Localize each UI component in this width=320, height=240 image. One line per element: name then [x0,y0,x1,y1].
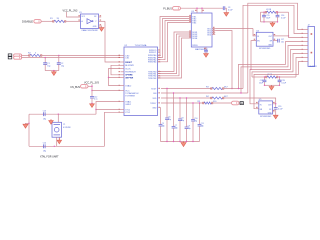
ground below C3 [224,13,229,17]
pin UART right TX group 4 [158,61,162,63]
wire: pi1 left leg down to ground rail [260,12,262,22]
node: cap field bus junction [192,141,193,142]
pin 6 U1 NC [99,16,102,18]
capacitor C1 15p (on bus) [44,58,46,63]
wire: caps common to ground [45,70,59,72]
wire: UART TXA0 to U3 pin [158,17,191,56]
wire: pi1 output leg down to J2 pin3 [289,12,304,37]
transceiver U3 MAX3160 IC [191,13,212,47]
svg-text:10uF: 10uF [266,18,271,20]
wire: R2 to UART pin (bus upper) [41,54,121,56]
svg-text:15p: 15p [47,65,50,67]
wire: R4 onward to LDO2 OUT junction [223,98,276,104]
row wire SIN [161,92,248,94]
wire: UART RXB1 to U3 pin [158,34,191,74]
svg-text:RXRDY1: RXRDY1 [149,52,156,54]
svg-text:R3: R3 [206,86,209,88]
capacitor C18 10uF (pi2 left) [264,77,266,80]
node: pi2 right tap [279,76,280,77]
svg-text:PWDN: PWDN [192,45,198,47]
wire: UART RXB2 to U3 pin [158,36,191,76]
capacitor C15 10uF (pi1 left) [263,12,265,15]
row wire VDD to LDO2 [161,97,212,99]
capacitor C6 decoupling (cap field 2) [166,89,168,119]
power arrow at crystal pin 1 [50,119,52,120]
pin U5 OUT junction [273,103,276,105]
node: cap field tap 2 [166,88,167,89]
wire: UART TXA1 to U3 pin [158,19,191,58]
pin UART right TX group 3 [158,59,162,61]
pin 1 U1 VCC [78,15,80,16]
node: cap field tap 3 [173,92,174,93]
node: cap field tap 5 [186,97,187,98]
svg-text:BLKPWR: BLKPWR [125,65,134,67]
wire: net from inverter U1 output down to UART RESET pin [105,21,121,62]
svg-text:Y1: Y1 [63,124,65,126]
wire: J2 pin6 fan to U5 IN [250,50,304,104]
pin U4 BP with capacitor C17 [273,40,278,42]
off-page connector icon right of TXD port [240,102,243,105]
wire: J1 pin1 to resistor R2 (bus upper) [22,54,30,56]
svg-text:U2: U2 [125,45,128,47]
wire: resistor R1 to inverter U1 input [65,20,81,22]
wire: VCC_PL_3V3 to U1 VCC pin [67,12,81,17]
node: cap field bus junction [186,141,187,142]
svg-text:0.1uF: 0.1uF [228,10,233,12]
pin J2-7 [304,53,309,55]
svg-text:18p: 18p [194,120,197,122]
ground below C4 [204,54,209,58]
pin UART left BLKPWR y65.3 [121,64,125,66]
wire: pi2 caps common [265,84,280,86]
svg-text:18p: 18p [168,119,171,121]
pin U4 EN wire [251,41,256,70]
svg-text:TIN4: TIN4 [192,22,196,24]
capacitor C13 18p (crystal top) [44,112,46,116]
wire: U3 right pin B2 down to SOUT row [215,31,232,89]
pin U5 IN wire from connector fan [256,103,259,105]
pin U3 left lower 1 [189,30,191,31]
svg-text:VCC_PL_3V3: VCC_PL_3V3 [63,9,79,12]
wire: J2 pin5 fan to SIN row [241,46,304,94]
capacitor C14 18p (crystal bottom) [44,144,46,148]
svg-text:MAX3160EAP: MAX3160EAP [195,48,208,51]
wire: gnd stub crystal [26,122,30,125]
svg-text:SOUT: SOUT [151,88,157,90]
node: crystal top junction [58,114,59,115]
pin UART right row 1 [158,88,160,89]
pin UART left VCC y90.5 [121,90,125,92]
crystal Y1 4.9152MHz [57,114,59,122]
pin UART left HIGHTACH y71.8 [121,71,125,73]
regulator U5 LDO (bottom right) [259,101,273,114]
svg-text:C13: C13 [43,111,46,113]
pin UART left RESET y62 [121,61,125,63]
wire: J2 pin8 fan to pi2 output [296,58,304,78]
pin UART left XTAL1 y101.5 [121,101,125,103]
wire: branch to UART X1 pin [96,109,121,111]
power arrow at crystal pin 2 [58,138,60,141]
wire: U4 IN from U3 supply net [253,29,256,36]
pin U3 right 1 [212,28,215,30]
pin U3 left lower 4 [189,36,191,37]
svg-text:TL16C554A: TL16C554A [135,44,147,47]
svg-text:18p: 18p [188,128,191,130]
UART U2 TL16C554A main IC [124,47,158,116]
wire: cap field common bus [161,141,200,143]
connector J1 (left, 2-pin) [8,54,12,56]
row wire GND stub to cap field [160,107,163,109]
op-amp U1 single-gate buffer 74AHC1G125 [81,14,99,29]
node: cap field tap 7 [199,102,200,103]
pin U3 right 4 [212,34,215,36]
crystal circuit: top wire [29,113,96,115]
wire: VCC to UART VCC pin [92,90,121,92]
pin UART right row 3 [158,97,160,98]
wire: J2 pin9 fan to U5 EN [254,62,304,109]
pin U3 right 3 [212,32,215,34]
pin U5 GND stub [273,111,275,113]
pin UART right RX group 3 [158,75,162,77]
svg-text:0: 0 [35,52,37,54]
node: crystal bottom junction [54,146,55,147]
svg-text:TXRDYB3: TXRDYB3 [148,78,156,80]
pin UART right row 4 [158,102,160,103]
svg-text:18p: 18p [181,120,184,122]
wire: PI_BUS to U3 top pins and C3 [181,7,224,9]
node: pi2 left tap [264,76,265,77]
pin J2-2 [304,33,309,35]
capacitor C5 decoupling (cap field 1) [160,108,162,125]
svg-text:XPWRE: XPWRE [125,75,133,77]
ground below U1 [99,28,104,32]
svg-text:TXRDY: TXRDY [150,103,157,105]
wire: UART TXA3 to U3 pin [158,23,191,62]
pi filter L1 (top right) [261,11,267,13]
svg-text:C14: C14 [43,143,46,145]
wire: C3 to ground stub [225,8,226,12]
svg-text:0.1uF: 0.1uF [282,83,287,85]
node: cap field tap 4 [179,97,180,98]
svg-text:SPX3819M5: SPX3819M5 [260,116,272,118]
wire: UART TXA2 to U3 pin [158,21,191,60]
svg-text:RESET: RESET [125,62,132,64]
pin J2-9 [304,61,309,63]
capacitor C3 0.1uF (top, U3 supply) [223,6,225,10]
pin UART left XCLK y68.5 [121,68,125,70]
node: junction cap C1 on bus lower [45,57,46,58]
ground below C12 [90,104,95,108]
svg-text:RON4: RON4 [192,38,197,40]
svg-text:10uF: 10uF [259,83,264,85]
node: pi1 right tap [277,12,278,13]
regulator U4 LDO SPX3819 [256,32,273,46]
svg-text:L1 FB: L1 FB [266,9,272,11]
capacitor C19 0.1uF (pi2 right) [279,77,281,80]
svg-text:74AHC1G125DBV: 74AHC1G125DBV [81,29,98,32]
ground below cap field bus [183,142,185,143]
svg-text:HIGHTACH: HIGHTACH [125,71,136,74]
wire: UART RXB3 to U3 pin [158,38,191,78]
pin UART left CS1 y57.6 [121,57,125,59]
node: cap field tap 6 [192,102,193,103]
wire: loop riser SIN to top and J2 pin1 [248,3,304,93]
svg-text:XTAL1: XTAL1 [125,100,132,103]
capacitor C12 0.1uF (UART VCC decoupling) [90,97,94,99]
svg-text:TOTHESR: TOTHESR [125,96,135,98]
wire: UART RXB0 to U3 pin [158,32,191,72]
wire: R3 to top loop riser [223,88,244,90]
pin UART left XPWRE y74.8 [121,74,125,76]
capacitor C7 decoupling (cap field 3) [173,93,175,127]
pin U3 top VCC [201,8,203,13]
node: junction cap C2 on bus upper [58,55,59,56]
svg-text:0.1uF: 0.1uF [281,18,286,20]
wire: UART pin Z-link IOW to INTA and XTAL2 [109,69,121,78]
ground at crystal left rail [23,124,28,128]
svg-text:PI_BUS: PI_BUS [163,8,172,11]
capacitor C2 15p (on bus) [58,55,60,62]
pin UART left INTPWR y77.5 [121,77,125,79]
wire: crystal top to UART XTAL1 [96,102,121,115]
pin UART right TX group 2 [158,57,162,59]
node: cap field bus junction [179,141,180,142]
svg-text:OUT: OUT [268,104,272,106]
capacitor C4 below U3 [204,50,208,52]
svg-text:XCLK: XCLK [125,68,131,70]
wire: J2 pin4 fan to SOUT row [239,42,304,89]
pin UART right row 5 [158,107,160,108]
wire: pi1 caps common [261,21,278,23]
pin J2-4 [304,41,309,43]
pin U3 top V+ [196,8,198,13]
svg-text:4K7: 4K7 [224,96,228,98]
svg-text:SPX3819M5: SPX3819M5 [259,48,271,50]
pin U3 left lower 3 [189,34,191,35]
svg-text:INTPWR: INTPWR [125,77,133,79]
ground below bus caps [53,71,55,72]
ground below U5 output cap [273,115,278,119]
pin U3 left upper 2 [189,17,191,18]
ground below pi1 [272,22,274,23]
capacitor C9 decoupling (cap field 5) [186,98,188,127]
wire: CN_BUS port to VCC net [88,85,92,87]
port pin 1 of J1 [14,54,22,57]
svg-text:4.9152M: 4.9152M [63,127,71,129]
pin UART left XTL1 y109.5 [121,109,125,111]
pin UART left XTL2 y112.3 [121,111,125,113]
pin 4 U1 Y output [99,20,106,22]
pin U4 OUT wire to pi1 output leg [273,35,289,37]
pin UART right RX group 1 [158,71,162,73]
svg-text:0.1u: 0.1u [94,99,98,101]
svg-text:XTAL FOR UART: XTAL FOR UART [40,155,59,158]
svg-text:HEADER: HEADER [309,65,317,68]
pin U5 EN wire from connector fan [256,108,259,110]
row wire TXRDY with resistor R5 330 [161,102,204,104]
node: crystal gnd tap [28,123,29,124]
connector J2 (right edge) [308,27,315,67]
svg-text:VCC_PL_3V3: VCC_PL_3V3 [84,82,100,85]
pin UART right RX group 4 [158,77,162,79]
pin J2-1 [304,29,309,31]
svg-text:R4: R4 [206,96,209,98]
pin U3 left lower 2 [189,32,191,33]
node: pi1 left tap [263,12,264,13]
capacitor C16 0.1uF (pi1 right) [277,12,279,15]
svg-text:R1: R1 [50,18,53,20]
capacitor C10 decoupling (cap field 6) [192,103,194,120]
svg-text:18p: 18p [43,118,46,120]
node: cap field bus junction [166,141,167,142]
pin UART right TX group 1 [158,54,162,56]
svg-text:18p: 18p [162,125,165,127]
wire: U3 right pin B1 to LDO input net [215,28,253,30]
pin U3 left upper 3 [189,19,191,20]
pin U3 right 2 [212,30,215,32]
wire: VCC vertical with decoupling cap [91,84,93,96]
wire: J1 pin2 to UART (bus lower) [22,57,121,59]
pin 2 U1 A [78,20,80,21]
svg-text:OUT: OUT [268,36,272,38]
ground below pi2 [271,85,273,86]
pin UART left CS0 y55.4 [121,54,125,56]
svg-text:33: 33 [57,18,60,20]
wire: J2 pin7 fan to pi2 input [252,54,304,78]
svg-text:XTAL2: XTAL2 [125,84,132,87]
wire: DISABLE port to resistor R1 [41,20,54,22]
pin J2-3 [304,37,309,39]
pin U3 bottom [205,47,207,50]
svg-text:0.1uF: 0.1uF [278,109,283,111]
wire: crystal bottom to UART X2 [105,112,121,146]
pin UART left XTAL2 y85.5 [121,85,125,87]
svg-text:DISABLE: DISABLE [22,20,33,24]
crystal circuit: bottom wire [29,145,105,147]
svg-text:4K7: 4K7 [224,86,228,88]
pin UART right RX group 2 [158,73,162,75]
capacitor C11 decoupling (cap field 7) [199,103,201,125]
row wire SOUT (UART to right) [161,88,212,90]
crystal circuit: left rail [28,114,30,146]
wire: UART pin Z-link IOR to CSB [111,65,121,75]
capacitor C20 0.1uF at U5 OUT [275,104,277,108]
pin UART right row 2 [158,92,160,93]
port pin 2 of J1 [14,56,22,59]
svg-text:18p: 18p [175,127,178,129]
pin 3 U1 GND [99,26,102,28]
svg-text:18p: 18p [201,125,204,127]
wire: loop riser SOUT to top and J2 pin2 [243,5,304,88]
pin U3 left upper 1 [189,15,191,16]
pin U3 left upper 4 [189,21,191,22]
svg-text:VCC: VCC [125,90,130,92]
svg-text:GND2: GND2 [125,104,131,106]
svg-text:15p: 15p [61,65,64,67]
svg-text:GND: GND [152,107,157,109]
svg-text:18p: 18p [43,150,46,152]
pin J2-8 [304,57,309,59]
port TXD (right of R5) [232,101,240,105]
svg-text:BO4: BO4 [207,34,211,36]
svg-text:330: 330 [213,101,217,103]
capacitor C8 decoupling (cap field 4) [179,98,181,119]
node: cap field bus junction [173,141,174,142]
pin J2-5 [304,45,309,47]
svg-text:CN_BUS: CN_BUS [70,86,80,89]
svg-text:10n: 10n [281,42,284,44]
pin J2-6 [304,49,309,51]
pi filter L2 (right middle) [252,76,267,78]
svg-text:RXRDYA3: RXRDYA3 [148,61,156,64]
